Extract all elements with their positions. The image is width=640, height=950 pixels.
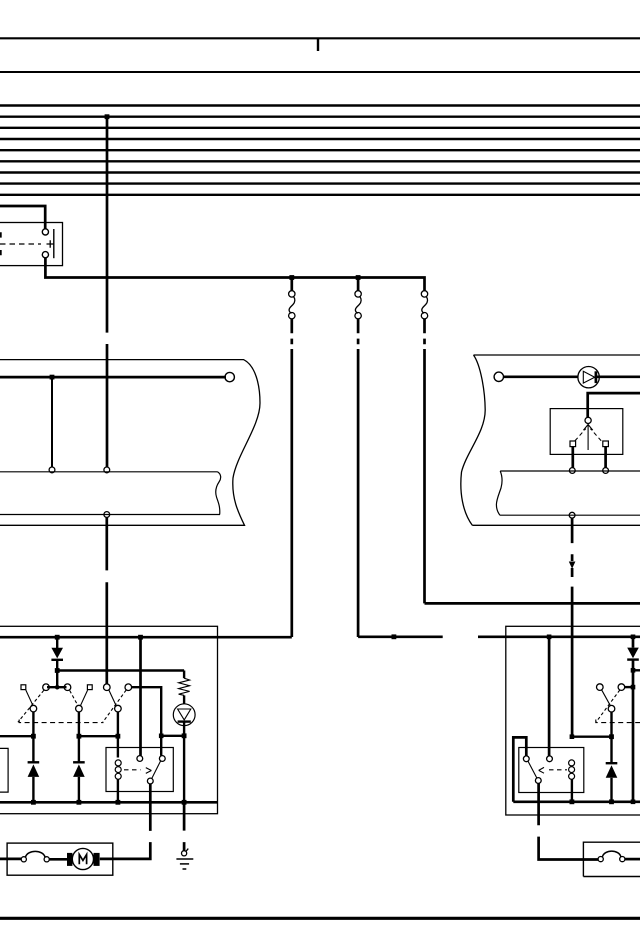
wire D2 junction to right edge: [633, 669, 640, 671]
junction square bus D2 chain: [631, 800, 636, 805]
top frame line 2: [0, 71, 640, 73]
switch SW1 fixed contact square: [21, 685, 26, 690]
connector row line C1: [0, 471, 218, 473]
connector strip C4 torn outline (right): [496, 471, 640, 515]
wire from right edge to switch S3: [588, 393, 640, 417]
junction dot SW4 chain: [609, 734, 614, 739]
junction dot coil line: [116, 734, 121, 739]
ground bus dot 1: [31, 800, 36, 805]
wire coil feed link: [572, 736, 612, 738]
relay RL2 coil lower lead: [571, 779, 573, 802]
wire relay L contact elbow to ground bus: [513, 737, 526, 801]
connector block C3 torn outline (right): [461, 355, 640, 525]
fuse F2 lower lead with break: [357, 319, 360, 637]
wire into motor box: [0, 858, 21, 861]
wire relay RL2 pivot to motor with break: [539, 783, 599, 859]
wire D1 to resistor: [57, 669, 184, 671]
switch SW1-SW2 common link: [47, 686, 67, 688]
wire S3 R contact down: [604, 447, 607, 468]
fuse F3 lower lead with break: [423, 319, 426, 604]
wire SW4 pivot down: [610, 712, 612, 737]
ground bus wire: [0, 801, 218, 804]
bus wire 4: [0, 138, 640, 140]
terminal ring C3: [494, 372, 503, 381]
junction dot on common link: [55, 685, 60, 690]
relay RL1 box: [106, 748, 173, 792]
relay RL2 movable pivot ring: [535, 778, 541, 784]
junction dot LED chain: [182, 733, 187, 738]
battery negative terminal: [42, 252, 48, 258]
diode D3 circle: [578, 367, 599, 388]
arrowhead on pin F wire: [569, 562, 576, 569]
terminal pin E: [603, 468, 609, 474]
junction square rail at diode D2: [631, 635, 636, 640]
switch SW1 lever lines: [26, 690, 33, 706]
wire ground lead with break: [183, 802, 186, 850]
switch SW3 fixed contact ring d: [125, 684, 132, 691]
ground bus dot 5: [570, 799, 575, 804]
diode D6: [606, 737, 618, 802]
wire rail junction to relay L contact: [139, 637, 142, 755]
junction square coil feed: [570, 734, 575, 739]
connector strip C2 torn outline: [0, 472, 221, 515]
wire power rail into master switch: [0, 636, 292, 639]
motor M1 label: [79, 855, 86, 865]
switch SW3 lever lines: [109, 690, 116, 706]
wire relay pivot to motor with break: [100, 784, 151, 859]
switch SW2 movable pivot: [76, 705, 83, 712]
switch S3 box: [550, 409, 623, 455]
switch SW2 fixed contact ring b: [64, 684, 71, 691]
wire SW2 pivot down: [78, 712, 80, 736]
bus wire 2: [0, 115, 640, 117]
motor M1 box: [7, 843, 113, 875]
switch S3 pole stem: [583, 424, 592, 451]
fuse F1 lead: [290, 278, 293, 291]
junction dot under D1: [55, 668, 60, 673]
frame tick mark: [317, 38, 319, 51]
diode D5: [73, 736, 85, 802]
fuse F1 lower lead with break: [290, 319, 293, 637]
switch SW1 movable pivot: [30, 705, 37, 712]
wire down from C1 feed: [51, 377, 53, 467]
wire rail segment 2: [358, 635, 443, 638]
relay RL1 lever: [152, 761, 161, 779]
wire D2 chain to bus: [632, 687, 635, 802]
resistor R1 lead: [183, 671, 185, 679]
wire rail junction to relay R contact: [548, 637, 551, 756]
switch SW4 lever lines: [602, 690, 611, 706]
junction square SW4 link: [631, 685, 636, 690]
LED cathode bar: [178, 720, 191, 722]
relay RL2 lever: [528, 761, 537, 778]
ground symbol G: [176, 849, 193, 869]
fuse F1: [289, 291, 295, 319]
relay RL2 contact L ring: [523, 756, 529, 762]
battery plus sign: [47, 240, 55, 247]
wire left edge to SW1 junction: [0, 735, 33, 737]
junction dot on bus wire 2: [105, 114, 110, 119]
wire breaker to motor: [49, 858, 67, 861]
relay RL1 contact L ring: [137, 756, 143, 762]
passenger switch box outline: [506, 626, 640, 815]
terminal pin A: [49, 467, 55, 473]
switch SW4 lever dashes: [596, 690, 620, 722]
linkage dashed bar right: [596, 720, 640, 723]
bus wire 5: [0, 149, 640, 151]
battery positive terminal: [42, 229, 48, 235]
relay RL2 contact R ring: [547, 756, 553, 762]
LED lower lead: [183, 722, 185, 736]
relay RL2 linkage dashes: [549, 769, 567, 771]
switch SW2 fixed contact square: [87, 685, 92, 690]
switch SW3 lever dashes: [103, 690, 126, 722]
relay RL2 box: [519, 748, 584, 793]
diode D1: [51, 637, 63, 670]
wire C3 feed left segment: [503, 375, 578, 378]
bus wire 9: [0, 194, 640, 196]
wire LED junction to relay contact wire: [161, 735, 184, 737]
junction square under D2: [631, 668, 636, 673]
wire pin F down with arrow break: [571, 518, 574, 737]
relay RL1 contact R ring: [159, 756, 165, 762]
relay RL1 movable pivot ring: [147, 778, 153, 784]
switch SW3 movable pivot: [115, 705, 122, 712]
bus wire 8: [0, 182, 640, 184]
switch SW2 lever lines: [80, 690, 87, 706]
relay RL2 coil: [569, 760, 575, 779]
switch SW4 fixed contact ring b: [618, 684, 625, 691]
switch SW1 fixed contact ring a: [43, 684, 50, 691]
battery plate line: [53, 229, 55, 258]
diode D2: [627, 637, 639, 687]
master switch box outline: [0, 626, 218, 813]
terminal pin B: [104, 467, 110, 473]
junction dot fuse 1 tap: [289, 275, 294, 280]
LED lead: [183, 695, 185, 704]
ground bus dot 4: [182, 800, 187, 805]
switch S3 contact L: [570, 441, 576, 447]
terminal pin C: [104, 512, 110, 518]
fuse F2 lead: [357, 278, 360, 291]
bus wire 7: [0, 171, 640, 173]
mechanical linkage dashed bar: [19, 720, 103, 723]
wire S3 L contact down: [571, 447, 574, 468]
junction dot SW2: [77, 734, 82, 739]
motor M2 box (cut off): [583, 842, 640, 876]
fuse F2: [355, 291, 361, 319]
LED circle: [173, 704, 195, 726]
switch SW4 fixed contact ring a: [597, 684, 604, 691]
junction square rail at coil feed: [547, 635, 552, 640]
connector block C1 torn outline: [0, 360, 260, 526]
cut-off neighbour switch box: [0, 748, 8, 792]
ground bus dot 6: [609, 799, 614, 804]
wire pin C down with break: [105, 517, 108, 684]
diode D3 cathode bar: [595, 371, 598, 383]
switch SW2 lever dashes: [70, 691, 78, 706]
junction dot rail at relay feed: [138, 635, 143, 640]
circuit breaker CB1: [21, 851, 49, 862]
fuse F3: [421, 291, 427, 319]
battery negative wire to fuse rail: [45, 258, 424, 291]
wire C3 feed right segment: [596, 375, 640, 378]
diode D3 triangle: [583, 371, 594, 383]
wire breaker CB2 to right edge: [625, 858, 640, 861]
switch SW1 lever dashes: [18, 690, 44, 722]
junction dot on C1 feed: [50, 375, 55, 380]
bus wire 6: [0, 160, 640, 162]
wire C1 feed: [0, 376, 226, 379]
relay RL1 coil: [115, 760, 121, 779]
bottom frame line: [0, 917, 640, 920]
wire SW3 ring d to relay R contact: [132, 687, 162, 755]
wire rail segment 3: [478, 635, 640, 638]
bus wire 3: [0, 127, 640, 129]
switch SW4 link to D2 wire: [625, 686, 633, 688]
terminal ring C1: [225, 372, 234, 381]
relay RL1 linkage arrow: [146, 768, 152, 774]
wire SW3 pivot down to relay coil: [117, 712, 119, 758]
junction dot fuse 2 tap: [356, 275, 361, 280]
resistor R1: [179, 678, 190, 695]
junction square relay contact wire: [159, 734, 164, 739]
junction dot SW1: [31, 734, 36, 739]
motor M1 brush L: [67, 853, 72, 866]
diode D4: [28, 736, 40, 802]
switch S3 contact R: [603, 441, 609, 447]
terminal pin D: [569, 468, 575, 474]
switch SW3 fixed contact ring c: [104, 684, 111, 691]
motor M1 brush R: [94, 853, 100, 866]
motor M1 body: [72, 848, 93, 869]
battery cut-off plate marks: [0, 232, 2, 255]
wire SW2 junction to coil line: [79, 735, 118, 737]
wire SW1 pivot down: [32, 712, 34, 736]
ground bus wire right: [513, 800, 640, 803]
relay RL1 linkage dashes: [124, 769, 141, 771]
relay RL1 coil lower lead: [117, 779, 119, 802]
wire from bus 2 down to connector (with break): [106, 117, 109, 468]
ground bus dot 3: [116, 800, 121, 805]
junction dot rail at diode D1: [55, 635, 60, 640]
ground bus dot 2: [77, 800, 82, 805]
circuit breaker CB2: [598, 851, 625, 862]
mystery junction dot on rail segment 2: [392, 634, 397, 639]
bus wire 10 to battery: [0, 206, 45, 229]
switch S3 common pole: [585, 417, 591, 423]
bus wire 1: [0, 104, 640, 106]
terminal pin F: [569, 512, 575, 518]
relay RL2 linkage arrow: [539, 767, 544, 773]
top frame line 1: [0, 37, 640, 39]
switch S3 dashed levers: [575, 429, 601, 441]
switch SW4 movable pivot: [608, 705, 615, 712]
wire LED junction to ground bus: [183, 736, 185, 803]
LED triangle: [178, 709, 191, 720]
wire fuse F3 to right edge: [425, 602, 640, 605]
wire D1 to switch common: [56, 671, 58, 688]
battery internal dashed link: [0, 243, 41, 245]
battery G1 box: [0, 223, 63, 266]
